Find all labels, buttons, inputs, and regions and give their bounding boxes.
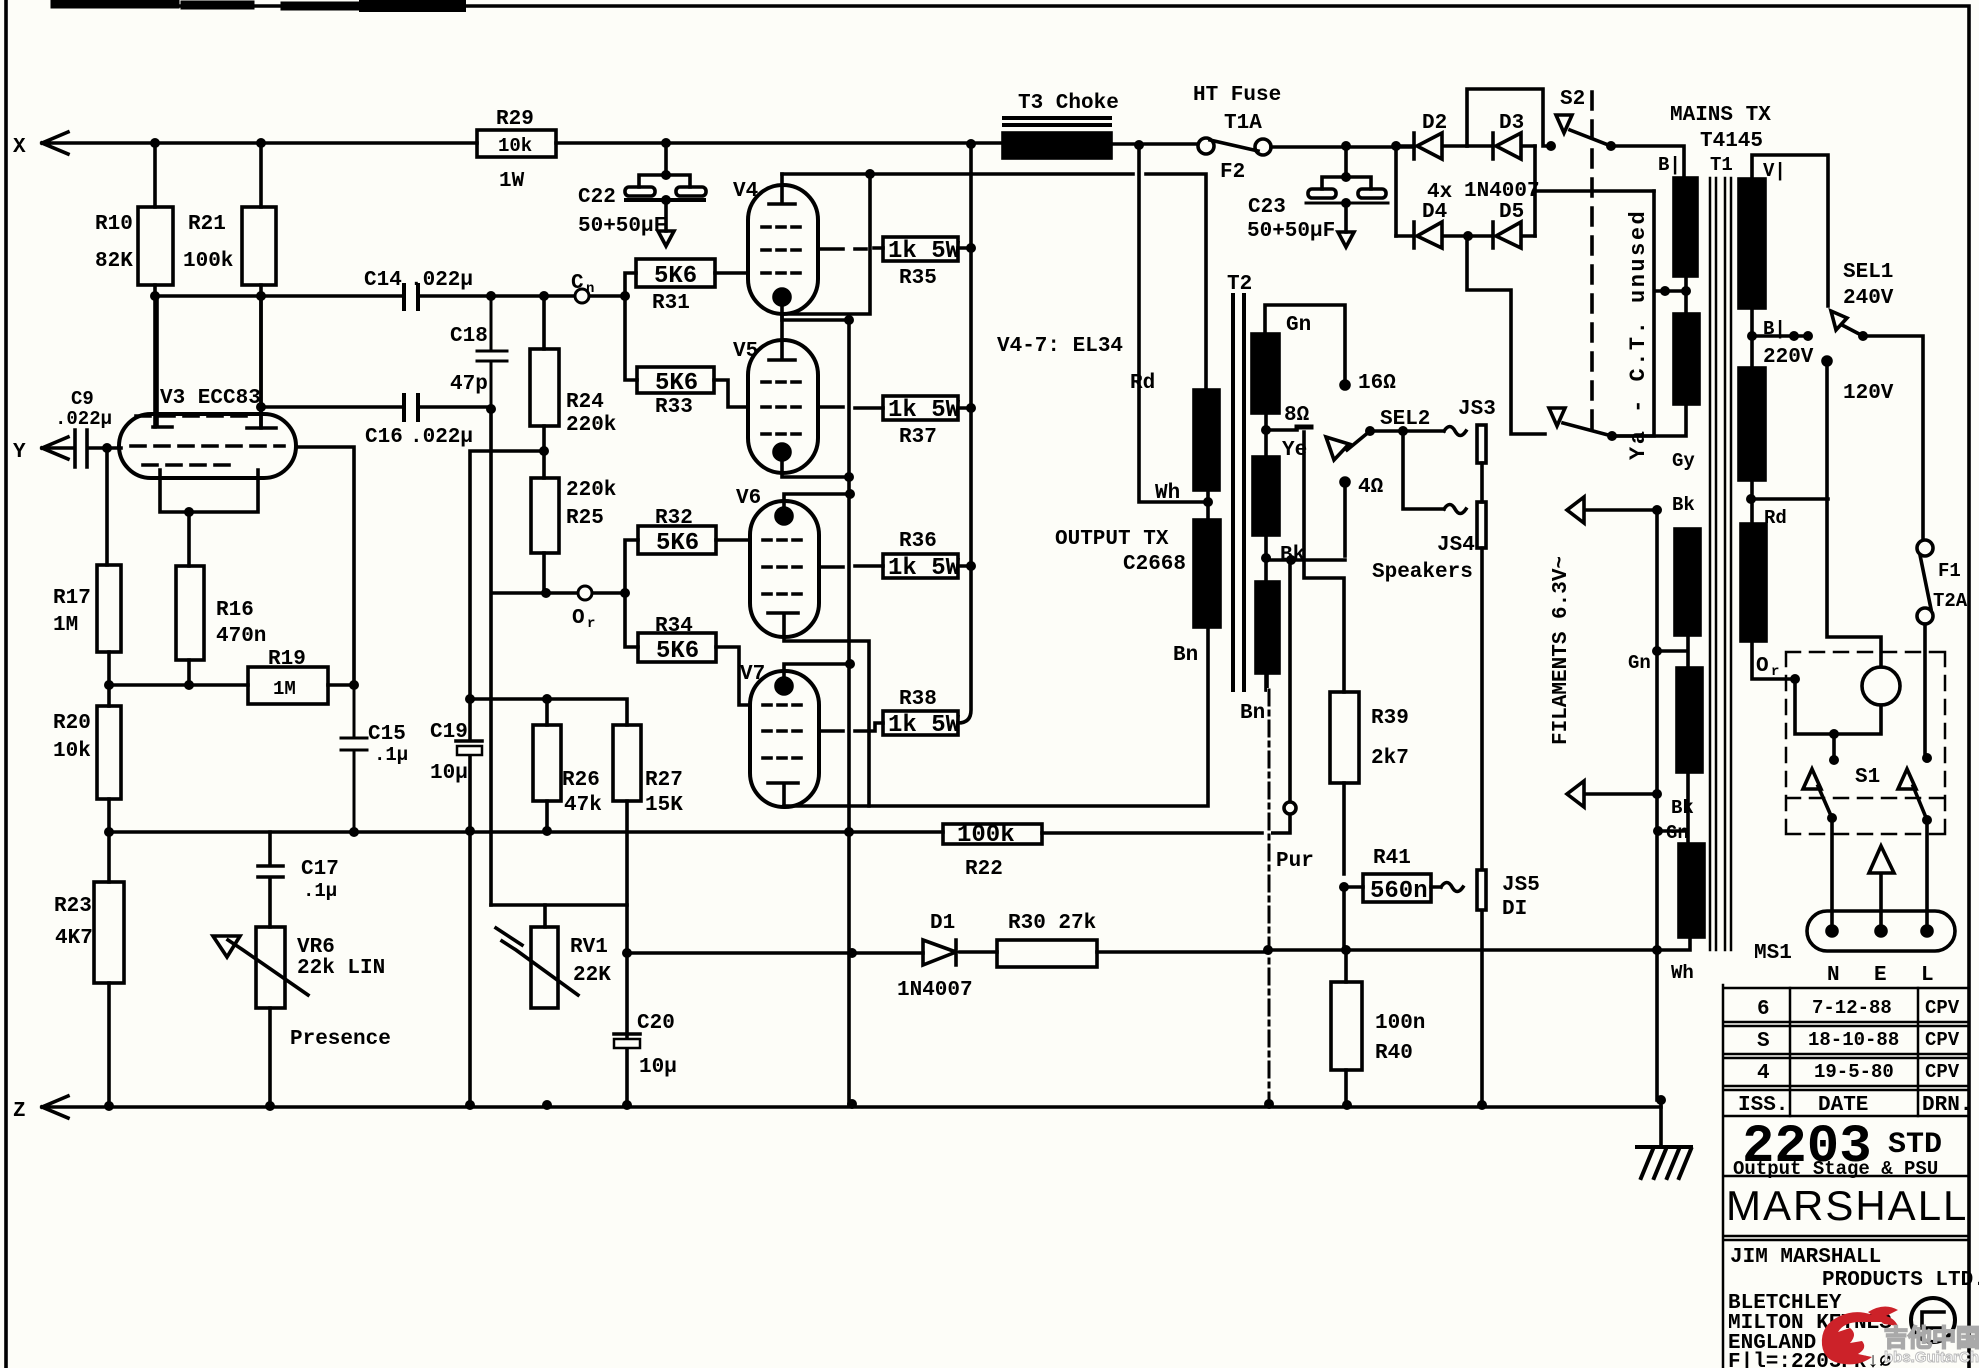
junction (1657,794) xyxy=(1652,789,1662,799)
junction (1657,950) xyxy=(1652,945,1662,955)
junction (354,685) xyxy=(349,680,359,690)
svg-text:50+50µF: 50+50µF xyxy=(1247,220,1335,243)
junction (1751,499) xyxy=(1746,494,1756,504)
node Or xyxy=(578,586,592,600)
svg-text:S2: S2 xyxy=(1560,88,1585,111)
svg-text:CPV: CPV xyxy=(1925,1029,1960,1051)
svg-text:r: r xyxy=(1771,664,1779,680)
svg-text:Pur: Pur xyxy=(1276,850,1314,873)
svg-text:R38: R38 xyxy=(899,688,937,711)
diode D3 xyxy=(1467,133,1535,159)
capacitor C23 xyxy=(1322,146,1371,189)
svg-text:R10: R10 xyxy=(95,213,133,236)
svg-text:T2: T2 xyxy=(1227,273,1252,296)
junction (1808,336) xyxy=(1803,331,1813,341)
svg-text:Bk: Bk xyxy=(1280,544,1305,567)
anode bar V3b xyxy=(247,296,276,428)
wire V3 grid right xyxy=(296,447,354,685)
svg-text:O: O xyxy=(572,607,585,630)
svg-text:C16: C16 xyxy=(365,426,403,449)
junction (666,175) xyxy=(661,170,671,180)
junction (1266,558) xyxy=(1261,553,1271,563)
svg-text:5K6: 5K6 xyxy=(654,263,697,290)
diode D5 xyxy=(1467,222,1535,248)
svg-text:R17: R17 xyxy=(53,587,91,610)
svg-text:SEL2: SEL2 xyxy=(1380,408,1430,431)
wire screen rail xyxy=(958,144,971,723)
svg-text:Rd: Rd xyxy=(1130,372,1155,395)
svg-text:50+50µF: 50+50µF xyxy=(578,215,666,238)
svg-text:V6: V6 xyxy=(736,487,761,510)
svg-text:V7: V7 xyxy=(740,663,765,686)
junction (1268,950) xyxy=(1263,945,1273,955)
cathode bracket V3 xyxy=(160,470,258,512)
selector SEL2 xyxy=(1341,381,1349,389)
resistor R38 xyxy=(883,711,958,735)
lamp xyxy=(1862,667,1900,705)
junction (870,174) xyxy=(865,169,875,179)
logo circle xyxy=(1911,1298,1955,1342)
svg-text:C9: C9 xyxy=(71,388,94,410)
junction (849,832) xyxy=(844,827,854,837)
wire C14 row xyxy=(155,285,625,428)
svg-text:C22: C22 xyxy=(578,186,616,209)
potentiometer VR6 xyxy=(256,927,285,1008)
wire R24-R25 junction row xyxy=(470,451,544,699)
svg-text:JS3: JS3 xyxy=(1458,398,1496,421)
dashed box S1 xyxy=(1786,652,1945,834)
svg-text:D5: D5 xyxy=(1499,201,1524,224)
tube V4 xyxy=(748,185,818,314)
junction (544,296) xyxy=(539,291,549,301)
wire R10 drop xyxy=(153,143,157,207)
wire R24 leads xyxy=(542,296,546,451)
svg-text:.1µ: .1µ xyxy=(303,880,337,902)
junction (1752,336) xyxy=(1747,331,1757,341)
svg-text:R25: R25 xyxy=(566,507,604,530)
fuse F2 xyxy=(1198,138,1214,154)
wire R19 row xyxy=(109,683,354,687)
wire D1 row xyxy=(627,952,997,953)
junction (1208,502) xyxy=(1203,497,1213,507)
svg-text:Bk: Bk xyxy=(1671,797,1694,819)
junction (1657,651) xyxy=(1652,646,1662,656)
capacitor C20 xyxy=(614,1032,640,1036)
junction (1657,510) xyxy=(1652,505,1662,515)
junction (1269,1104) xyxy=(1264,1099,1274,1109)
wire R20 bottom xyxy=(107,799,111,882)
svg-text:Gy: Gy xyxy=(1672,450,1695,472)
svg-text:MS1: MS1 xyxy=(1754,942,1792,965)
junction (971,566) xyxy=(966,561,976,571)
svg-text:DI: DI xyxy=(1502,898,1527,921)
junction (261,143) xyxy=(256,138,266,148)
diode D1 xyxy=(923,940,956,965)
svg-text:JS5: JS5 xyxy=(1502,874,1540,897)
svg-text:560n: 560n xyxy=(1370,878,1428,905)
diode D2 xyxy=(1396,133,1467,159)
svg-text:T1: T1 xyxy=(1710,154,1733,176)
svg-text:C18: C18 xyxy=(450,325,488,348)
junction (1346,950) xyxy=(1341,945,1351,955)
svg-text:22K: 22K xyxy=(573,964,611,987)
svg-text:100k: 100k xyxy=(957,822,1015,849)
junction (1468,236) xyxy=(1463,231,1473,241)
wire Or to R32/R34 bracket xyxy=(625,540,638,647)
svg-text:220k: 220k xyxy=(566,414,616,437)
svg-text:R30 27k: R30 27k xyxy=(1008,912,1096,935)
svg-text:CPV: CPV xyxy=(1925,997,1960,1019)
junction (1291,560) xyxy=(1286,555,1296,565)
svg-text:7-12-88: 7-12-88 xyxy=(1812,997,1892,1019)
node Cn xyxy=(575,289,589,303)
junction (1344,887) xyxy=(1339,882,1349,892)
junction (547,1105) xyxy=(542,1100,552,1110)
switch S1 left pole xyxy=(1832,734,1836,760)
junction (971,248) xyxy=(966,243,976,253)
svg-text:MARSHALL: MARSHALL xyxy=(1726,1182,1968,1229)
anode bar V3a xyxy=(153,296,172,427)
junction (1834,734) xyxy=(1829,729,1839,739)
mains TX primary B1 xyxy=(1674,178,1697,276)
mains plug MS1 xyxy=(1807,911,1955,951)
mains TX secondary V1 xyxy=(1739,179,1765,308)
wire R22 row xyxy=(1042,814,1290,833)
junction (491,296) xyxy=(486,291,496,301)
svg-text:C17: C17 xyxy=(301,858,339,881)
svg-text:1M: 1M xyxy=(273,678,296,700)
svg-text:R37: R37 xyxy=(899,426,937,449)
resistor R41 xyxy=(1363,874,1431,902)
svg-text:C23: C23 xyxy=(1248,196,1286,219)
tube V7 xyxy=(750,671,819,807)
filament arrow 2 xyxy=(1567,781,1657,807)
resistor R26 xyxy=(533,725,561,801)
resistor R16 xyxy=(176,566,204,660)
junction (155,296) xyxy=(150,291,160,301)
capacitor C19 xyxy=(456,699,482,1105)
svg-text:C19: C19 xyxy=(430,721,468,744)
svg-text:STD: STD xyxy=(1888,1128,1942,1162)
junction (849,477) xyxy=(844,472,854,482)
capacitor C15 xyxy=(341,685,367,832)
svg-text:B|: B| xyxy=(1658,154,1681,176)
svg-text:R41: R41 xyxy=(1373,847,1411,870)
svg-text:T1A: T1A xyxy=(1224,112,1262,135)
mains TX core xyxy=(1710,178,1731,950)
svg-text:220k: 220k xyxy=(566,479,616,502)
svg-text:F1: F1 xyxy=(1938,560,1961,582)
svg-text:SEL1: SEL1 xyxy=(1843,261,1893,284)
resistor R27 xyxy=(613,725,641,801)
svg-text:16Ω: 16Ω xyxy=(1358,372,1396,395)
svg-text:Ye: Ye xyxy=(1282,439,1307,462)
wire L2 drop xyxy=(491,409,625,905)
resistor R21 xyxy=(242,207,276,285)
junction (1139,145) xyxy=(1134,140,1144,150)
svg-text:VR6: VR6 xyxy=(297,936,335,959)
resistor R33 xyxy=(637,367,714,393)
wire bridge top bracket xyxy=(1467,89,1551,146)
switch S2 upper xyxy=(1556,115,1611,146)
svg-text:C14: C14 xyxy=(364,269,402,292)
junction (155,143) xyxy=(150,138,160,148)
wire X rail xyxy=(556,141,1003,145)
svg-text:1M: 1M xyxy=(53,614,78,637)
svg-text:V3 ECC83: V3 ECC83 xyxy=(160,387,261,410)
wire Ya bracket xyxy=(1612,191,1654,436)
svg-text:Gn: Gn xyxy=(1286,314,1311,337)
svg-text:RV1: RV1 xyxy=(570,936,608,959)
svg-text:10µ: 10µ xyxy=(430,762,468,785)
resistor R29 xyxy=(477,130,556,157)
svg-text:8Ω: 8Ω xyxy=(1284,404,1310,427)
wire R21 drop xyxy=(259,143,263,207)
svg-text:10k: 10k xyxy=(498,135,532,157)
wire S2 link dashed xyxy=(1590,92,1594,430)
junction (1863,336) xyxy=(1858,331,1868,341)
choke T3 xyxy=(1003,133,1111,158)
svg-text:1N4007: 1N4007 xyxy=(1464,180,1540,203)
resistor R24 xyxy=(530,349,559,426)
junction (189,685) xyxy=(184,680,194,690)
junction (625,296) xyxy=(620,291,630,301)
svg-text:47p: 47p xyxy=(450,373,488,396)
svg-text:R34: R34 xyxy=(655,615,693,638)
svg-text:1N4007: 1N4007 xyxy=(897,979,973,1002)
svg-text:D4: D4 xyxy=(1422,201,1447,224)
wire VR6 bottom xyxy=(268,1008,272,1106)
wire Pur dash line xyxy=(1267,673,1269,1104)
junction (261,296) xyxy=(256,291,266,301)
wire R16 leads xyxy=(187,512,191,685)
junction (546,593) xyxy=(541,588,551,598)
svg-text:D2: D2 xyxy=(1422,112,1447,135)
svg-text:HT Fuse: HT Fuse xyxy=(1193,84,1281,107)
wire cathode rail xyxy=(847,320,851,1104)
svg-text:C: C xyxy=(571,272,584,295)
svg-text:Bk: Bk xyxy=(1672,494,1695,516)
svg-text:JS4: JS4 xyxy=(1437,534,1475,557)
svg-text:n: n xyxy=(586,281,594,297)
svg-text:1k 5W: 1k 5W xyxy=(888,238,961,265)
junction (666,200) xyxy=(661,195,671,205)
svg-text:R39: R39 xyxy=(1371,707,1409,730)
capacitor C18 xyxy=(477,296,507,409)
wire HT drop to Wh xyxy=(1139,145,1208,502)
node X xyxy=(42,132,477,154)
svg-text:R26: R26 xyxy=(562,769,600,792)
svg-text:r: r xyxy=(587,616,595,632)
svg-text:1k 5W: 1k 5W xyxy=(888,555,961,582)
svg-text:R19: R19 xyxy=(268,648,306,671)
svg-text:R16: R16 xyxy=(216,599,254,622)
svg-text:CPV: CPV xyxy=(1925,1061,1960,1083)
svg-text:4x: 4x xyxy=(1427,181,1453,204)
junction (666,143) xyxy=(661,138,671,148)
wire C16 row xyxy=(261,405,491,409)
junction (1686,291) xyxy=(1681,286,1691,296)
svg-text:10k: 10k xyxy=(53,740,91,763)
resistor R39 xyxy=(1330,692,1359,783)
wire R33 to V5 xyxy=(714,380,748,407)
svg-text:V4: V4 xyxy=(733,180,758,203)
selector SEL1 xyxy=(1831,311,1923,540)
svg-text:DRN.: DRN. xyxy=(1922,1094,1972,1117)
svg-text:.022µ: .022µ xyxy=(410,269,473,292)
junction (544,451) xyxy=(539,446,549,456)
junction (470,699) xyxy=(465,694,475,704)
svg-text:18-10-88: 18-10-88 xyxy=(1808,1029,1899,1051)
svg-text:5K6: 5K6 xyxy=(656,530,699,557)
svg-text:Rd: Rd xyxy=(1764,507,1787,529)
svg-text:DATE: DATE xyxy=(1818,1094,1868,1117)
svg-text:Ya - C.T. unused: Ya - C.T. unused xyxy=(1626,209,1651,460)
svg-text:R23: R23 xyxy=(54,895,92,918)
node Z xyxy=(42,1096,68,1118)
wire Bk drop xyxy=(1288,560,1292,802)
junction (547,831) xyxy=(542,826,552,836)
wire jack sleeve bus xyxy=(1480,463,1484,1105)
resistor R40 xyxy=(1331,982,1362,1070)
resistor R22 xyxy=(943,824,1042,844)
wire R25 leads xyxy=(542,451,546,593)
junction (1795,679) xyxy=(1790,674,1800,684)
svg-text:6: 6 xyxy=(1757,998,1770,1021)
fuse F1 xyxy=(1917,540,1933,556)
junction (625,593) xyxy=(620,588,630,598)
junction (971,408) xyxy=(966,403,976,413)
svg-text:X: X xyxy=(13,136,26,159)
title block text xyxy=(1726,997,1979,1368)
svg-text:10µ: 10µ xyxy=(639,1056,677,1079)
svg-text:R24: R24 xyxy=(566,391,604,414)
resistor R32 xyxy=(638,526,716,554)
svg-text:O: O xyxy=(1756,655,1769,678)
svg-text:5K6: 5K6 xyxy=(656,638,699,665)
svg-text:R33: R33 xyxy=(655,396,693,419)
svg-text:Wh: Wh xyxy=(1155,482,1180,505)
junction (354,832) xyxy=(349,827,359,837)
wire R23 bottom xyxy=(107,983,111,1106)
wire bridge lower out xyxy=(1467,236,1545,434)
svg-text:V5: V5 xyxy=(733,340,758,363)
svg-text:R20: R20 xyxy=(53,712,91,735)
junction (852,1104) xyxy=(847,1099,857,1109)
junction (1794,336) xyxy=(1789,331,1799,341)
junction (627,953) xyxy=(622,948,632,958)
svg-text:470n: 470n xyxy=(216,625,266,648)
junction (1927,820) xyxy=(1922,815,1932,825)
junction (1612,436) xyxy=(1607,431,1617,441)
resistor R23 xyxy=(94,882,124,983)
filament arrow 1 xyxy=(1567,497,1657,523)
jack JS5 xyxy=(1477,870,1486,910)
svg-text:1k 5W: 1k 5W xyxy=(888,712,961,739)
wire R41 node down xyxy=(1342,887,1346,950)
svg-text:Z: Z xyxy=(13,1100,26,1123)
svg-text:S: S xyxy=(1757,1030,1770,1053)
svg-text:C15: C15 xyxy=(368,723,406,746)
resistor R20 xyxy=(97,706,121,799)
junction (1396,146) xyxy=(1391,141,1401,151)
output transformer T2 primary xyxy=(1194,390,1219,490)
svg-text:Gn: Gn xyxy=(1628,652,1651,674)
junction (109,832) xyxy=(104,827,114,837)
svg-text:Gn: Gn xyxy=(1666,822,1689,844)
svg-text:MAINS TX: MAINS TX xyxy=(1670,104,1771,127)
svg-text:D3: D3 xyxy=(1499,112,1524,135)
wire bridge plus xyxy=(1394,146,1398,236)
wire Cn to R31/R33 bracket xyxy=(625,273,637,380)
junction (109,685) xyxy=(104,680,114,690)
svg-text:.022µ: .022µ xyxy=(55,408,112,430)
junction (189,512) xyxy=(184,507,194,517)
junction (627,1105) xyxy=(622,1100,632,1110)
svg-text:4: 4 xyxy=(1757,1062,1770,1085)
svg-text:L: L xyxy=(1921,964,1934,987)
svg-text:1W: 1W xyxy=(499,170,525,193)
svg-text:120V: 120V xyxy=(1843,382,1894,405)
svg-text:100n: 100n xyxy=(1375,1012,1425,1035)
junction (1482,1105) xyxy=(1477,1100,1487,1110)
wire R27 bottom xyxy=(625,801,629,1105)
tube V5 xyxy=(748,340,818,473)
svg-text:R32: R32 xyxy=(655,507,693,530)
switch S2 lower xyxy=(1549,408,1612,436)
junction (849,320) xyxy=(844,315,854,325)
svg-text:D1: D1 xyxy=(930,912,955,935)
resistor R34 xyxy=(638,633,716,662)
ground symbol xyxy=(1637,1147,1691,1178)
junction (1266,430) xyxy=(1261,425,1271,435)
capacitor C22 xyxy=(639,143,690,187)
resistor R37 xyxy=(883,396,958,420)
resistor R25 xyxy=(531,478,559,553)
svg-text:Y: Y xyxy=(13,441,26,464)
wire V4/V5 plates xyxy=(782,174,1206,390)
junction (1370,431) xyxy=(1365,426,1375,436)
junction (850,494) xyxy=(845,489,855,499)
junction (971,144) xyxy=(966,139,976,149)
svg-text:47k: 47k xyxy=(564,794,602,817)
resistor R17 xyxy=(97,565,121,652)
svg-text:吉他中国: 吉他中国 xyxy=(1884,1325,1979,1352)
svg-text:C2668: C2668 xyxy=(1123,553,1186,576)
wire Ye to R39 xyxy=(1304,432,1344,692)
node Y xyxy=(42,437,68,459)
svg-text:19-5-80: 19-5-80 xyxy=(1814,1061,1894,1083)
junction (1347,1105) xyxy=(1342,1100,1352,1110)
svg-text:bbs.GuitarChina.com: bbs.GuitarChina.com xyxy=(1884,1349,1979,1366)
svg-text:R27: R27 xyxy=(645,769,683,792)
wire R34 to V7 xyxy=(716,647,750,705)
svg-text:5K6: 5K6 xyxy=(655,370,698,397)
junction (1927,758) xyxy=(1922,753,1932,763)
svg-text:2k7: 2k7 xyxy=(1371,747,1409,770)
svg-text:R22: R22 xyxy=(965,858,1003,881)
svg-text:R35: R35 xyxy=(899,267,937,290)
junction (261,407) xyxy=(256,402,266,412)
svg-text:Bn: Bn xyxy=(1240,702,1265,725)
svg-text:220V: 220V xyxy=(1763,346,1814,369)
svg-text:Bn: Bn xyxy=(1173,644,1198,667)
svg-text:FILAMENTS 6.3V~: FILAMENTS 6.3V~ xyxy=(1550,556,1573,745)
capacitor C9 xyxy=(42,430,107,467)
junction (1403,431) xyxy=(1398,426,1408,436)
jack JS4 xyxy=(1403,431,1466,514)
svg-text:R29: R29 xyxy=(496,108,534,131)
